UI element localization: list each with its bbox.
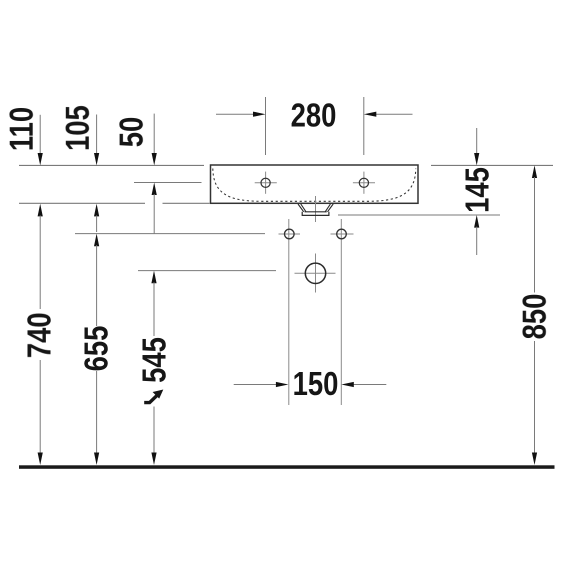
dimension 110/740 shared arrow [38,204,43,217]
floor line [19,465,555,469]
dimension 740 lower line and arrow [39,360,41,453]
dimension 150 right arrow [353,384,386,386]
faucet hole right crosshair [353,182,375,184]
faucet hole right [359,178,368,187]
svg-text:110: 110 [3,107,40,151]
dimension 850 line lower and arrow [534,341,536,453]
recommended-height arrow symbol [144,396,157,403]
dimension 280 right arrow [376,113,413,115]
dimension 850 line upper [532,165,537,178]
dimension 150 left arrow [234,384,277,386]
drain fitting trapezoid [298,204,333,212]
mounting hole right extension line [340,219,342,405]
dimension 105 lower arrow [94,204,99,217]
svg-text:545: 545 [136,337,173,383]
drain bottom line (145) [338,214,500,216]
dimension 545 lower line and arrow [153,407,155,453]
svg-text:850: 850 [516,294,553,340]
rim extension line left [19,164,204,166]
faucet hole left [261,178,270,187]
svg-text:145: 145 [459,167,496,213]
mounting hole left [285,229,295,239]
svg-text:655: 655 [78,326,115,372]
dimension 50 line [153,114,155,154]
mounting hole left crosshair [279,233,301,235]
svg-text:50: 50 [113,117,150,148]
tap hole height line (50) [134,182,202,184]
washbasin outline [211,165,419,203]
dimension 145 lower arrow [474,215,479,228]
dimension 655 lower line and arrow [96,371,98,453]
mounting hole right crosshair [331,233,354,235]
mounting hole right [337,229,347,239]
rim extension line right [431,164,553,166]
drain fitting centerline [315,196,317,222]
dimension 545 top arrow [151,271,156,284]
dimension 145 upper line and arrow [476,128,478,154]
dimension 105 line [96,115,98,154]
drain crosshair [295,272,336,274]
mounting hole left extension line [288,219,290,405]
dimension 110 line [39,115,41,154]
svg-text:105: 105 [59,105,96,151]
dimension 655 top arrow [94,234,99,247]
svg-text:740: 740 [21,312,58,358]
svg-text:150: 150 [293,366,339,403]
drain height line (545) [138,270,276,272]
dimension 50 lower arrow [152,183,157,196]
dimension 280 extension line left [265,97,267,155]
basin bottom extension line [19,202,145,204]
drain circle [305,263,325,283]
dimension 280 extension line right [363,97,365,155]
dimension 280 left arrow [216,113,254,115]
basin interior dashed contour [213,169,416,202]
svg-text:280: 280 [291,97,337,134]
faucet hole left crosshair [255,182,277,184]
mounting holes height line (655) [75,233,265,235]
